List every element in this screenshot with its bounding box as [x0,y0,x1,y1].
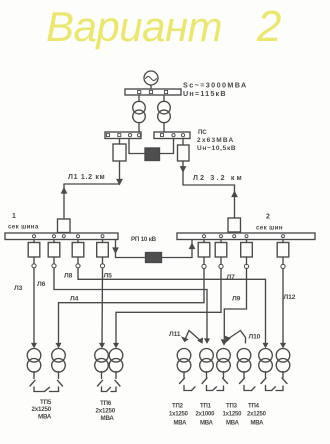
transformer TPc [217,349,231,363]
entry breaker section 2 [228,218,241,232]
bus 115kV (top busbar) [125,89,181,95]
busbar section 1 [5,233,118,240]
transformer TPf [276,349,290,363]
svg-text:ТП5: ТП5 [40,399,52,406]
svg-text:ТП2: ТП2 [172,404,184,410]
svg-text:2х1000: 2х1000 [196,412,216,418]
line L9 feeder to TPc [224,269,246,340]
svg-text:Вариант: Вариант [46,3,222,50]
feeder breaker R2 [220,240,222,243]
svg-text:Uн=115кВ: Uн=115кВ [183,89,227,98]
breaker Q1 (left outgoing) [119,139,121,145]
line L3 feeder to TP5 left [33,268,35,345]
svg-text:МВА: МВА [38,414,52,421]
transformer T1 (two-winding) [133,101,146,114]
feeder breaker R3 [246,240,248,243]
transformer TPd [237,349,251,363]
line L1 (cable 1.2 km) [119,161,121,184]
tie L11 between TPa and TPb [185,331,202,342]
transformer TPb [200,349,214,363]
svg-text:сек шин: сек шин [256,225,283,232]
svg-text:Л12: Л12 [284,294,296,301]
svg-text:Л8: Л8 [64,273,73,280]
switchgear TP6 [98,380,103,386]
feeder breaker F3 [77,240,79,243]
transformer TP6-1 [95,349,109,363]
line L7 reserve feeder from section 2 to TP6 right [116,269,221,346]
svg-text:Л2 3.2 км: Л2 3.2 км [193,175,244,182]
transformer T2 (two-winding) [158,101,171,114]
left 10kV busbar of PS [105,132,141,139]
line L4 reserve feeder from section 2 to TP5 right [59,269,205,346]
transformer TPe [259,349,273,363]
wire gen to bus0 [150,85,152,89]
svg-text:1: 1 [12,213,16,220]
feeder breaker F1 [33,240,35,243]
svg-text:МВА: МВА [251,421,265,427]
svg-text:РП 10 кВ: РП 10 кВ [131,236,157,243]
svg-text:ТП4: ТП4 [248,404,260,410]
svg-text:ПС: ПС [198,129,207,136]
transformer TP5-1 [27,349,41,363]
feeder breaker R4 [282,240,284,243]
busbar section 2 [177,233,315,240]
wire bus0 to T2 [163,95,165,101]
svg-text:ТП3: ТП3 [226,404,238,410]
line L2 (cable 3.2 km) [182,161,184,185]
svg-text:Л10: Л10 [249,334,261,341]
entry breaker section 1 [58,219,71,233]
svg-text:Uн~10,5кВ: Uн~10,5кВ [197,145,236,152]
svg-text:2: 2 [266,214,270,221]
transformer TPa [177,349,191,363]
svg-text:1х1250: 1х1250 [223,412,243,418]
line L12 feeder to TPf [282,269,284,346]
wire T1 to left 10kV bus [138,123,140,132]
transformer TP6-2 [109,349,123,363]
tie L10 between TPc and TPd [227,331,246,344]
line L5 feeder to TP6 left [101,268,104,345]
switchgear TP5 [30,380,35,386]
generator G (system source) [144,71,158,85]
feeder breaker R1 [203,240,205,243]
transformer TP5-2 [52,349,66,363]
breaker Q2 (right outgoing) [182,139,184,146]
svg-text:МВА: МВА [174,421,188,427]
line L6 feeder to TPb [54,268,207,341]
svg-text:2х1250: 2х1250 [96,408,116,415]
svg-text:Л1 1.2 км: Л1 1.2 км [68,174,105,181]
reactor link between PS buses [128,139,130,154]
svg-text:МВА: МВА [226,421,240,427]
svg-text:МВА: МВА [200,421,214,427]
svg-text:2х1250: 2х1250 [247,412,267,418]
wire T2 to right 10kV bus [163,123,165,132]
feeder breaker F4 [102,240,104,243]
svg-text:Л6: Л6 [37,281,46,288]
svg-text:ТП6: ТП6 [100,400,112,407]
line L8 feeder to TPe [78,268,266,345]
switchgear TP4 pair [261,378,266,384]
svg-text:Л7: Л7 [227,274,236,281]
switch TPa [180,378,185,384]
svg-text:Л9: Л9 [232,296,241,303]
svg-text:2х1250: 2х1250 [32,406,52,413]
svg-text:Л4: Л4 [70,296,79,303]
switch TPd [240,378,245,384]
svg-text:2х63МВА: 2х63МВА [197,137,234,144]
wire bus0 to T1 [138,95,140,101]
disconnector stubs under right feeders [203,257,205,264]
svg-text:Л5: Л5 [104,273,113,280]
right 10kV busbar of PS [154,132,190,139]
svg-text:1х1250: 1х1250 [169,412,189,418]
feeder breaker F2 [53,240,55,243]
svg-text:сек шина: сек шина [8,224,39,231]
switchgear TP1 pair [202,378,207,384]
svg-text:Л3: Л3 [14,285,23,292]
disconnector stubs under left feeders [33,257,35,264]
svg-text:Л11: Л11 [169,331,181,338]
svg-text:ТП1: ТП1 [200,404,212,410]
svg-text:МВА: МВА [101,415,115,422]
svg-text:2: 2 [256,2,281,51]
